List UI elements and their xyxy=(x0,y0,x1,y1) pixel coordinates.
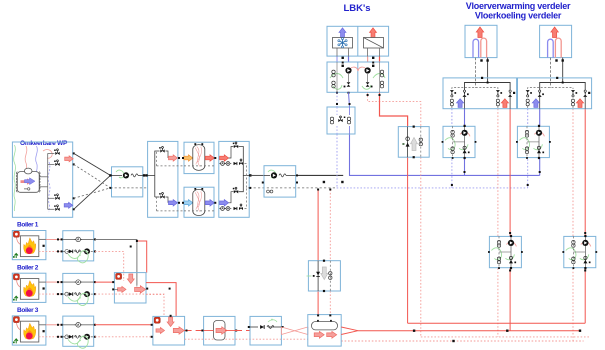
wire dist-right dashed xyxy=(245,164,250,188)
box manifold 2 xyxy=(518,78,592,109)
valve group M2 return valve xyxy=(583,260,587,264)
wire red drop M1 dotted xyxy=(497,109,499,237)
wire bottom red return dotted lower xyxy=(341,340,583,342)
wire blue drop M1 xyxy=(451,109,453,127)
box bottom vessel xyxy=(204,316,235,345)
wire bottom red supply upper xyxy=(408,322,586,324)
box verdeler unit 1 xyxy=(465,25,497,57)
node pump B ports xyxy=(262,182,264,184)
wire Boiler 2 ret xyxy=(39,293,63,295)
valve group M1 return pump xyxy=(508,240,514,246)
box manifold 1 xyxy=(443,78,517,109)
wire buffer top dashed xyxy=(184,165,214,167)
lblue arrow buffer bottom in xyxy=(184,200,193,206)
wire red riser mid dotted xyxy=(329,190,331,261)
node riser dots xyxy=(379,94,381,96)
red arrow LBK heat xyxy=(370,28,377,38)
collector controller icon xyxy=(116,273,122,279)
wire blue return branch M1 xyxy=(451,158,453,188)
Boiler 2 body xyxy=(20,279,38,300)
wire boiler3 supply red xyxy=(95,324,153,326)
box LBK units xyxy=(327,26,389,56)
wire blue drop M2 xyxy=(527,109,529,127)
box tank xyxy=(308,315,341,347)
wire LBK coil drops xyxy=(336,48,338,62)
sensor pump B xyxy=(267,190,270,193)
box verdeler unit 2 xyxy=(540,25,572,57)
node LBK drop dots xyxy=(342,57,344,59)
box bottom check xyxy=(250,316,281,345)
manifold 1 valve L1 xyxy=(450,90,454,92)
valve group M2 green curl xyxy=(519,138,529,150)
valve group M1 return valve xyxy=(509,260,513,264)
wire dist-left bot drop xyxy=(166,197,169,203)
node buffer bottom ports xyxy=(182,202,184,204)
wire diagonal supply 1 xyxy=(74,153,111,175)
manifold 1 dashed header xyxy=(452,88,498,89)
Boiler 1 check valve xyxy=(65,250,69,254)
purple arrow dist-right xyxy=(220,200,229,206)
valve group M1 pump xyxy=(462,130,468,136)
cooling coil LBK xyxy=(333,38,353,49)
valve group M2 circles bottom xyxy=(525,147,528,150)
TSA valve xyxy=(406,137,410,141)
bottom collector icon xyxy=(154,317,160,323)
wire LBK drop color segs xyxy=(336,57,338,63)
Boiler 1 green curl xyxy=(68,251,88,263)
node trunk dots xyxy=(323,181,325,183)
box Boiler 3 valves xyxy=(63,316,94,346)
valve dist-right bottom xyxy=(234,190,238,193)
Boiler 1 pump xyxy=(84,248,90,254)
manifold 1 circles L xyxy=(450,99,453,102)
pump P1 xyxy=(112,174,123,176)
valve group M1 circles bottom xyxy=(451,147,454,150)
box pump B xyxy=(264,166,296,197)
wire bottom red return dotted upper xyxy=(421,336,590,338)
U-tube blue verdeler 2 xyxy=(548,39,554,57)
valve group M1 return red curl xyxy=(506,242,516,246)
wire Boiler 1 out xyxy=(39,238,46,240)
wire red riser TSA solid xyxy=(407,157,409,323)
collector internal wire xyxy=(114,288,118,290)
valve group M1 circles top xyxy=(451,130,454,133)
collector arrow in xyxy=(118,286,127,292)
bottom collector arrow down xyxy=(167,317,174,327)
blue mid wavy dashed xyxy=(48,162,50,212)
Boiler 3 check valve xyxy=(65,335,69,339)
box Omkeerbare WP xyxy=(12,142,72,217)
Boiler 3 sensor xyxy=(76,323,81,328)
LBK valve cell2 xyxy=(380,70,383,73)
wire red drop M1 solid low xyxy=(509,268,511,330)
Boiler 3 return pipe xyxy=(63,336,94,338)
node LBK junction dots xyxy=(336,103,338,105)
Boiler 2 gas valve xyxy=(14,296,18,301)
purple arrow LBK cool xyxy=(339,28,346,38)
manifold 1 valve R2 xyxy=(509,90,511,92)
box buffer bottom xyxy=(184,187,214,217)
green curl LBK right xyxy=(373,74,385,79)
valve group M1 return green curl xyxy=(491,248,501,260)
wire blue return branch M2 xyxy=(527,158,529,188)
red arrow WP heating xyxy=(65,156,74,162)
valve group M1 return interior lines xyxy=(498,236,500,267)
manifold 2 solid header xyxy=(540,83,586,91)
wire supply pumpA out xyxy=(143,174,148,176)
red arrow buffer top out xyxy=(205,155,214,161)
Boiler 1 sensor xyxy=(76,237,81,242)
mid interior lines xyxy=(317,261,319,291)
wire red riser mid solid xyxy=(317,190,319,261)
node boiler1 conn dots xyxy=(136,240,138,242)
valve WP V2 xyxy=(48,163,55,165)
Boiler 1 flame xyxy=(24,238,36,254)
Boiler 3 red curve xyxy=(17,323,21,330)
U-tube blue verdeler 1 xyxy=(473,39,479,57)
wire boiler1 supply red xyxy=(137,241,147,273)
wire red riser TSA dotted xyxy=(420,157,422,337)
wire collector out dotted xyxy=(146,294,164,296)
Boiler 2 sensor xyxy=(76,280,81,285)
manifold 2 blue arrow xyxy=(532,99,539,108)
valve group M2 red curl xyxy=(534,132,544,136)
purple arrow dist-left xyxy=(169,200,178,206)
node Boiler 3 valve ports xyxy=(61,324,63,326)
sensors dist-right top xyxy=(221,162,225,166)
bottom check valve xyxy=(260,325,264,329)
node valve group M2 dots xyxy=(538,125,540,127)
wire blue return dotted trunk xyxy=(337,187,528,189)
wire diagonal supply 2 xyxy=(74,175,111,209)
svg-text:LBK's: LBK's xyxy=(343,3,370,14)
manifold 1 valve L2 xyxy=(463,90,465,92)
svg-text:Vloerkoeling verdeler: Vloerkoeling verdeler xyxy=(475,11,562,21)
node bottom check ports xyxy=(248,326,250,328)
heating coil LBK xyxy=(364,38,384,49)
manifold 2 circles L xyxy=(526,99,529,102)
svg-text:Omkeerbare WP: Omkeerbare WP xyxy=(20,140,68,147)
U-tube red verdeler 1 xyxy=(481,38,487,58)
bottom collector arrow out xyxy=(173,327,184,335)
Boiler 3 squiggle xyxy=(75,335,81,338)
box LBK valves xyxy=(327,62,389,92)
Boiler 3 green curl xyxy=(68,336,88,348)
wire HP to valves xyxy=(39,176,48,178)
Boiler 2 return pipe xyxy=(63,293,94,295)
LBK junction valves xyxy=(330,117,333,120)
valve dist-right top xyxy=(234,145,238,148)
buffer tank top xyxy=(193,145,205,171)
wire LBK junction internal xyxy=(336,107,338,115)
wire boiler2 supply red xyxy=(95,281,115,283)
node bottom line dots xyxy=(413,330,415,332)
valve WP V4 xyxy=(48,208,55,210)
wire diagonal return 1 xyxy=(74,164,111,188)
wire bottom link2 xyxy=(235,330,250,332)
wire dist-left dashed top xyxy=(157,165,185,167)
box mid valve xyxy=(308,261,340,291)
box collector xyxy=(114,273,146,303)
box bottom collector xyxy=(153,316,185,345)
Boiler 3 flame xyxy=(24,323,36,339)
mid valve glyph xyxy=(316,272,320,276)
valve dist-left bottom xyxy=(160,195,164,198)
wire verdeler feed 2 xyxy=(550,58,552,88)
green curl pump B xyxy=(268,170,276,178)
valve group M1 return circles top xyxy=(497,241,500,244)
wire blue supply branch M1 xyxy=(464,158,466,176)
manifold 2 valve R1 xyxy=(571,90,575,92)
wire dist-left top drop xyxy=(166,151,169,158)
wire blue return riser LBK xyxy=(336,134,338,188)
node verdeler feed dots xyxy=(486,59,488,61)
wire Boiler 1 ret xyxy=(39,250,63,252)
purple arrow buffer bottom out xyxy=(205,200,214,206)
box valve group M2 xyxy=(517,126,549,157)
node dist-right port xyxy=(249,174,251,176)
Boiler 2 green curl xyxy=(68,293,88,305)
wire Boiler 2 out xyxy=(39,281,46,283)
manifold 2 circles R xyxy=(571,99,574,102)
manifold 2 valve L2 xyxy=(539,90,541,92)
bottom check squiggle xyxy=(267,326,274,329)
collector arrow down xyxy=(127,274,134,284)
Boiler 3 controller icon xyxy=(13,317,19,323)
manifold 1 valve R1 xyxy=(496,90,500,92)
valve WP V3 xyxy=(48,197,55,199)
wire dist to pumpB xyxy=(250,174,264,176)
wire Boiler 3 ret xyxy=(39,336,63,338)
bottom vessel wires xyxy=(204,330,214,332)
bottom vessel arrow xyxy=(216,327,227,335)
node Boiler 2 ports xyxy=(43,287,45,289)
Boiler 2 flame xyxy=(24,281,36,297)
valve WP V1 xyxy=(48,152,55,154)
manifold 2 valve R2 xyxy=(584,90,586,92)
node Boiler 3 ports xyxy=(43,330,45,332)
Boiler 2 red curve xyxy=(17,280,21,287)
node manifold 2 dots xyxy=(556,77,558,79)
sensors dist-right bottom xyxy=(221,207,225,211)
wire LBK red return dotted xyxy=(368,92,421,126)
heat pump unit xyxy=(17,172,39,193)
valve group M1 interior lines xyxy=(452,126,454,157)
valve group M2 interior lines xyxy=(526,126,528,157)
valve group M2 return red curl xyxy=(581,242,591,246)
U-tube red verdeler 2 xyxy=(555,38,561,57)
TSA interior lines xyxy=(407,127,409,158)
node valve group M1 return dots xyxy=(510,235,512,237)
red source curve xyxy=(25,146,27,189)
Boiler 2 supply pipe xyxy=(63,281,94,283)
manifold 2 valve L1 xyxy=(526,90,530,92)
svg-text:Vloerverwarming verdeler: Vloerverwarming verdeler xyxy=(466,1,571,11)
node bottom dots2 xyxy=(186,330,188,332)
valve group M2 valve xyxy=(537,150,541,154)
svg-text:Boiler 3: Boiler 3 xyxy=(17,307,39,314)
node manifold 1 dots xyxy=(481,77,483,79)
valve group M2 return circles top xyxy=(572,241,575,244)
node collector ports xyxy=(112,281,114,283)
red arrow dist-right xyxy=(220,155,229,161)
wire boiler1 return dotted xyxy=(95,251,124,281)
Boiler 1 red curve xyxy=(17,238,21,245)
manifold 1 drops lower xyxy=(451,106,453,109)
node Boiler 1 valve ports xyxy=(61,238,63,240)
collector arrow out xyxy=(135,286,146,294)
node valve group M1 dots xyxy=(464,125,466,127)
wire red drop M1 solid xyxy=(509,109,511,237)
wire blue supply riser LBK xyxy=(350,134,540,175)
Boiler 2 controller icon xyxy=(13,274,19,280)
green curl pump A xyxy=(116,170,124,178)
wire bowtie right xyxy=(341,327,358,331)
manifold 1 circles R xyxy=(496,99,499,102)
node dist-left ports xyxy=(145,174,147,176)
box distribution left xyxy=(148,141,178,217)
pink arrow dist-left xyxy=(169,155,178,161)
Boiler 3 gas valve xyxy=(14,339,18,344)
box Boiler 3 xyxy=(12,316,46,345)
Boiler 3 body xyxy=(20,321,38,342)
wire supply pumpB to LBK riser xyxy=(296,174,344,176)
valve group M1 valve xyxy=(463,150,467,154)
svg-text:Boiler 1: Boiler 1 xyxy=(17,222,39,229)
box valve group M2 return xyxy=(564,236,596,267)
node TSA ports xyxy=(413,126,415,128)
wire return dashed trunk xyxy=(249,187,336,189)
Boiler 3 pump xyxy=(84,334,90,340)
valve group M1 return circles bottom xyxy=(497,257,500,260)
wire LBK red supply xyxy=(380,92,408,126)
bottom collector arrow in xyxy=(156,328,165,334)
box valve group M1 xyxy=(443,126,475,157)
node manifold bottom dots xyxy=(509,232,511,234)
wire collector out red xyxy=(146,283,176,317)
valve group M2 pump xyxy=(536,130,542,136)
wire bottom link1 xyxy=(185,330,204,332)
blue source curve xyxy=(36,146,39,190)
wire blue supply branch M2 xyxy=(539,158,541,176)
green source curve xyxy=(14,145,16,211)
manifold 1 red arrow xyxy=(501,99,508,108)
wire red drop M2 dotted xyxy=(572,109,574,237)
wire boiler3 return dotted xyxy=(95,336,153,338)
wire return under pumpA xyxy=(110,187,147,189)
box buffer top xyxy=(184,142,214,173)
wire buffer bottom dashed xyxy=(184,210,214,212)
manifold 2 red arrow xyxy=(576,99,583,108)
valve group M1 red curl xyxy=(460,132,470,136)
node Boiler 2 valve ports xyxy=(61,281,63,283)
Boiler 1 squiggle xyxy=(75,250,81,253)
valve group M2 return interior lines xyxy=(572,236,574,267)
Boiler 1 controller icon xyxy=(13,231,19,237)
node bottom vessel ports xyxy=(201,330,203,332)
wire red drop M2 solid low xyxy=(584,268,586,323)
wire diagonal return 2 xyxy=(74,188,111,198)
pump P2 xyxy=(264,174,270,176)
valve group M1 green curl xyxy=(445,138,455,150)
bottom collector wire xyxy=(170,315,172,318)
node LBK valve dots xyxy=(342,62,344,64)
manifold 2 drops lower xyxy=(527,106,529,109)
wire dist-left dashed bottom xyxy=(157,210,185,212)
buffer tank bottom xyxy=(193,189,205,215)
blue arrow WP cooling xyxy=(64,202,73,208)
box valve group M1 return xyxy=(489,236,521,267)
red arrow verdeler 1 xyxy=(476,27,484,38)
red arrow verdeler 2 xyxy=(551,27,559,38)
Boiler 1 gas valve xyxy=(14,254,18,259)
node WP ports xyxy=(73,152,75,154)
node Boiler 1 ports xyxy=(43,245,45,247)
box Boiler 2 xyxy=(12,273,46,302)
box Boiler 2 valves xyxy=(63,273,94,303)
wire boiler1 supply xyxy=(95,239,137,285)
valve group M2 circles top xyxy=(525,130,528,133)
wire bottom red supply lower xyxy=(358,330,580,332)
TSA gray arrow xyxy=(411,138,418,151)
LBK valve cell1 xyxy=(332,70,335,73)
TSA circles xyxy=(419,138,422,141)
wire dist-right rails xyxy=(229,147,234,159)
node valve group M2 return dots xyxy=(584,235,586,237)
wire red drop M2 dotted low xyxy=(572,268,574,341)
Boiler 2 pump xyxy=(84,291,90,297)
red valve curve xyxy=(43,150,52,159)
node blue trunk dots xyxy=(464,171,466,173)
wire bowtie left xyxy=(281,327,307,335)
valve group M2 return pump xyxy=(582,240,588,246)
box LBK junction xyxy=(327,107,355,134)
wire verdeler feed 1 xyxy=(474,58,476,88)
wire bottom return dotted row xyxy=(185,338,308,340)
node buffer top ports xyxy=(182,157,184,159)
node tank ports xyxy=(317,314,319,316)
manifold 1 solid header xyxy=(465,83,511,91)
box pump A xyxy=(112,167,143,197)
box Boiler 1 valves xyxy=(63,231,94,261)
Boiler 1 body xyxy=(20,236,38,257)
wire red drop M2 solid xyxy=(584,109,586,237)
wire boiler2 return dotted xyxy=(95,294,164,316)
tank horizontal xyxy=(312,322,338,330)
wire LBK to junction box xyxy=(336,92,338,107)
Boiler 2 squiggle xyxy=(75,293,81,296)
manifold 1 blue arrow xyxy=(457,99,464,108)
wire red drop M1 dotted low xyxy=(497,268,499,337)
wire dist-left rails xyxy=(155,151,160,197)
Boiler 1 return pipe xyxy=(63,250,94,252)
valve group M2 return circles bottom xyxy=(572,257,575,260)
bottom vessel tank xyxy=(214,321,226,341)
Boiler 1 supply pipe xyxy=(63,238,94,240)
valve group M2 return green curl xyxy=(566,248,576,260)
manifold 2 dashed header xyxy=(528,88,573,89)
svg-text:Boiler 2: Boiler 2 xyxy=(17,264,39,271)
bottom check wires xyxy=(250,326,258,328)
valve dist-left top xyxy=(160,149,164,152)
orange arrow buffer top in xyxy=(184,155,193,161)
box TSA xyxy=(398,127,429,158)
node pump A ports xyxy=(109,174,111,176)
node bottom collector ports xyxy=(151,324,153,326)
mid gray arrow xyxy=(321,267,328,280)
bottom check green xyxy=(268,320,277,322)
Boiler 3 supply pipe xyxy=(63,324,94,326)
